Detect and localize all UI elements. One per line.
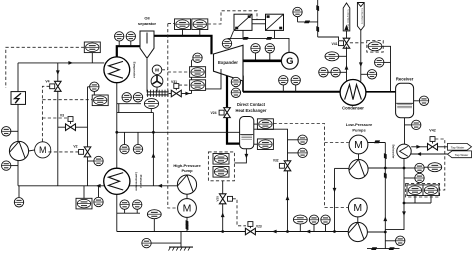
converter (rectifier) square 1 xyxy=(234,14,252,30)
off-page connector cooling water out xyxy=(343,3,350,31)
svg-text:V4: V4 xyxy=(45,80,49,84)
valve V31 xyxy=(169,93,171,95)
pump P3 low pressure pump 1 xyxy=(349,160,368,179)
instrument TI subcooler 1 xyxy=(415,163,424,172)
wire TIC sensing line xyxy=(382,46,391,92)
expander (turbine) xyxy=(214,45,244,81)
svg-text:V25: V25 xyxy=(215,196,219,202)
instrument pair V32 line xyxy=(298,135,307,144)
wire hot line to evaporator xyxy=(18,62,104,64)
wire LP pump2 discharge xyxy=(367,231,385,233)
fan xyxy=(151,75,163,87)
instrument stacked pair at expander outlet xyxy=(231,77,240,86)
wire DCHX drain to V25 xyxy=(234,149,246,163)
signal dashed main bus xyxy=(168,24,178,208)
generator G xyxy=(281,52,298,69)
wire to grid xyxy=(298,21,318,23)
svg-text:Tap Water: Tap Water xyxy=(451,146,465,150)
instrument TI return xyxy=(94,197,103,206)
off-page connector cooling water in xyxy=(357,3,364,31)
valve V41 xyxy=(346,31,348,40)
instrument FIR oval bottom middle xyxy=(293,215,307,224)
wire DCHX outlet to V32 xyxy=(254,129,288,161)
wire DC link xyxy=(252,19,266,21)
instrument TI hot return xyxy=(2,161,11,170)
wire cooling water inlet xyxy=(360,30,362,81)
instrument TIC return (boxed oval) xyxy=(76,198,92,209)
wire evaporator bottom to preheater xyxy=(116,83,118,169)
pump P4 low pressure pump 2 xyxy=(348,222,367,241)
instrument FIR tap water (oval) xyxy=(428,163,442,172)
oil separator vessel xyxy=(140,31,154,57)
off-page connector tap water in xyxy=(448,151,472,158)
wire instrument branch preheater xyxy=(117,212,140,214)
drain assembly xyxy=(180,232,182,247)
svg-text:Tap Water: Tap Water xyxy=(455,153,469,157)
svg-text:V31: V31 xyxy=(171,80,177,84)
svg-text:Cooling Water Out: Cooling Water Out xyxy=(346,10,349,28)
signal dashed to converter xyxy=(208,11,257,24)
valve V23 xyxy=(245,228,255,235)
svg-text:separator: separator xyxy=(138,21,157,26)
valve V42 xyxy=(411,146,427,148)
off-page connector tap water out xyxy=(448,143,472,150)
svg-text:Low-pressure: Low-pressure xyxy=(134,172,138,191)
valve V2 xyxy=(84,147,91,157)
wire oil separator outlet to expander inlet (thick) xyxy=(154,36,212,54)
signal dashed LIC to LP pumps xyxy=(274,124,349,208)
valve V4 xyxy=(57,63,59,81)
heat exchanger: subcooler xyxy=(397,144,411,158)
heat exchanger: condenser xyxy=(340,80,366,106)
instrument circles above evaporator outlet xyxy=(115,32,124,41)
instrument PI near V2 xyxy=(94,156,103,165)
wire M1 bypass xyxy=(368,142,385,144)
heat exchanger: evaporator xyxy=(104,57,130,83)
svg-text:G: G xyxy=(286,56,293,67)
instrument FIR HP (boxed ovals in dashed box) xyxy=(213,154,229,165)
wire oil drain xyxy=(146,57,148,91)
motor of HP pump xyxy=(178,199,197,218)
valve V3 xyxy=(58,126,88,128)
wire expander shaft to generator (thick) xyxy=(243,59,282,62)
instrument grid power meter xyxy=(293,7,302,16)
instrument TI hot supply xyxy=(2,127,11,136)
instrument pair cooling water out xyxy=(319,68,328,77)
svg-text:V24: V24 xyxy=(210,111,216,115)
wire controllers to line xyxy=(404,202,431,204)
svg-text:Direct Contact: Direct Contact xyxy=(237,102,266,107)
wire subcooler outlet down xyxy=(385,159,404,230)
instrument pair bottom line xyxy=(309,215,318,224)
instrument TI evaporator inlet xyxy=(90,82,99,91)
svg-text:Expander: Expander xyxy=(218,60,238,65)
wire right riser xyxy=(384,143,386,249)
wire instrument branch 1 xyxy=(117,103,141,105)
wire receiver outlet xyxy=(404,118,406,145)
instrument TI condenser outlet xyxy=(375,58,384,67)
instrument pair below evaporator xyxy=(122,93,131,102)
instrument TI cooling inlet xyxy=(367,70,376,79)
svg-text:V41: V41 xyxy=(331,42,337,46)
svg-text:V32: V32 xyxy=(273,159,279,163)
finned oil cooler element xyxy=(147,91,169,93)
instrument pair exhaust line xyxy=(279,76,288,85)
instrument pair feed line xyxy=(120,144,129,153)
instrument PI oil line xyxy=(193,53,202,62)
instrument FIR cooling water (oval) xyxy=(325,52,339,61)
wire expander exhaust to condenser (thick) xyxy=(242,76,244,92)
instrument PI receiver outlet xyxy=(412,120,421,129)
instrument FIR oval bottom xyxy=(147,210,161,219)
svg-text:Cooling Water In: Cooling Water In xyxy=(361,8,364,25)
svg-text:Condenser: Condenser xyxy=(342,106,364,111)
svg-text:V42: V42 xyxy=(429,129,435,133)
controller TIC cooling water (oval in dashed box) xyxy=(368,42,382,51)
wire HP pump discharge riser xyxy=(152,113,154,186)
wire expander lube left xyxy=(205,69,221,89)
valve V32 xyxy=(284,161,291,171)
wire condenser to receiver xyxy=(366,91,396,93)
motor of LP pump 2 xyxy=(348,198,367,217)
instrument LIC DCHX (boxed oval) xyxy=(257,119,273,130)
wire hot water return line xyxy=(18,185,178,187)
instrument CIR C07 (boxed oval) xyxy=(192,19,208,30)
svg-text:Evaporator: Evaporator xyxy=(133,62,137,79)
wire LP pump1 suction xyxy=(335,167,350,169)
pump P1 (hot loop circulation pump) xyxy=(9,141,28,160)
controller CIC tap (boxed oval) xyxy=(423,185,439,196)
heat exchanger: low-pressure preheater xyxy=(104,168,130,194)
wire tap water return xyxy=(411,153,448,155)
instrument pair expander shaft xyxy=(251,44,260,53)
instrument FIR oil line (boxed) xyxy=(190,80,206,91)
motor of pump P1 xyxy=(35,142,51,158)
direct contact heat exchanger vessel xyxy=(240,117,254,149)
instrument pair preheater outlet xyxy=(120,200,129,209)
wire preheater outlet down xyxy=(116,194,118,231)
wire pump-motor link xyxy=(29,150,35,151)
svg-text:M: M xyxy=(155,68,159,73)
controller TIC tap (boxed oval) xyxy=(407,185,423,196)
controller TIC T01 (boxed oval) xyxy=(92,95,108,106)
instrument TIR oval below evaporator xyxy=(144,99,158,109)
svg-text:V3: V3 xyxy=(60,114,64,118)
wire heater riser xyxy=(17,63,19,92)
signal dashed TIC to heater xyxy=(6,47,85,88)
wire oil return riser xyxy=(191,61,193,94)
instrument TI drain xyxy=(142,238,151,247)
motor of oil cooler fan xyxy=(152,65,162,75)
electric heater E1 xyxy=(11,92,26,105)
svg-text:Preheater: Preheater xyxy=(139,175,143,189)
svg-text:Oil: Oil xyxy=(144,16,149,21)
instrument PI expander inlet xyxy=(222,39,231,48)
wire generator to converters xyxy=(228,38,289,52)
wire feed line to DCHX xyxy=(117,131,240,133)
svg-text:Heat Exchanger: Heat Exchanger xyxy=(236,108,267,113)
instrument PI hot return xyxy=(14,198,23,207)
svg-text:Subcooler: Subcooler xyxy=(391,144,395,159)
motor of LP pump 1 xyxy=(349,135,368,154)
instrument TIR DCHX (boxed oval) xyxy=(257,139,273,150)
converter (inverter) square 2 xyxy=(266,14,284,30)
instrument PI bottom right xyxy=(396,236,405,245)
wire expander exhaust to V24 and DCHX (thick) xyxy=(226,71,228,108)
wire HP motor drain xyxy=(186,218,188,232)
wire V2 branch xyxy=(87,87,89,147)
wire LP pump1 discharge xyxy=(368,167,404,169)
instrument TI subcooler 2 xyxy=(415,173,424,182)
instrument LT receiver level xyxy=(419,96,428,105)
svg-text:Pumps: Pumps xyxy=(352,127,366,132)
instrument CIR C06 (boxed oval) xyxy=(175,19,191,30)
svg-text:Receiver: Receiver xyxy=(396,77,414,82)
pump P2 high-pressure pump xyxy=(177,175,196,194)
svg-text:V2: V2 xyxy=(73,145,77,149)
receiver vessel xyxy=(396,83,414,117)
wire bottom drain segment xyxy=(367,248,400,250)
svg-text:Pump: Pump xyxy=(181,168,193,173)
valve V25 xyxy=(222,181,224,232)
wire main condensate bottom line xyxy=(117,231,348,233)
controller TIC hot loop (boxed oval) xyxy=(84,42,100,53)
signal dashed V4 actuator xyxy=(42,86,49,142)
svg-text:V23: V23 xyxy=(256,225,262,229)
instrument TIR oil line (boxed) xyxy=(190,67,206,78)
wire evaporator outlet to oil separator (thick) xyxy=(117,46,140,58)
wire instrument branch 2 xyxy=(118,104,120,113)
